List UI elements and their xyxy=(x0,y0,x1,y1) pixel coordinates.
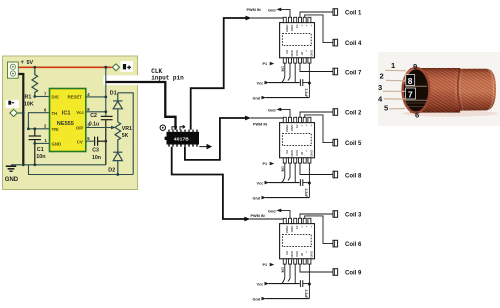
coil 4 terminal xyxy=(333,39,338,46)
svg-text:VR1: VR1 xyxy=(122,126,132,132)
svg-text:Gnd: Gnd xyxy=(253,197,261,201)
white box behind B+ icon xyxy=(121,61,134,72)
svg-text:8: 8 xyxy=(408,76,413,86)
wire: TH pin 6 xyxy=(28,113,49,129)
capacitor 2.2uF xyxy=(299,280,301,287)
node xyxy=(308,181,312,185)
wire: feed to IC2 xyxy=(191,18,246,130)
coil body right section xyxy=(455,69,496,111)
svg-text:9: 9 xyxy=(413,62,417,71)
wire: coil 2 output xyxy=(300,112,333,117)
wire: TRI pin 2 xyxy=(28,128,49,130)
terminal B+ diamond xyxy=(112,64,119,71)
winding texture xyxy=(410,68,455,113)
wire: DIS pin 7 xyxy=(35,96,50,98)
wire: +5V red rail xyxy=(19,66,112,68)
wire: Vcc pin 8 xyxy=(86,111,106,113)
potentiometer VR1 xyxy=(115,122,121,152)
pin number 8 box xyxy=(406,75,415,86)
svg-text:NE555: NE555 xyxy=(57,121,74,127)
wire: coil 6 output xyxy=(305,216,333,244)
oscillator driver U1 4017B xyxy=(165,130,199,147)
svg-text:Coil 5: Coil 5 xyxy=(345,141,362,147)
svg-text:Coil 1: Coil 1 xyxy=(345,11,362,17)
svg-text:IC1: IC1 xyxy=(62,111,71,117)
svg-text:Gnd: Gnd xyxy=(253,298,261,302)
svg-text:+: + xyxy=(21,60,25,66)
svg-text:2: 2 xyxy=(380,72,384,81)
svg-text:C1: C1 xyxy=(37,147,44,153)
wire: CLK from 555 output xyxy=(106,82,176,130)
diode D1 xyxy=(113,93,122,122)
svg-text:Gnd: Gnd xyxy=(268,108,276,112)
IC3 4017 decade counter xyxy=(280,117,315,163)
connector J1 (2-pin) xyxy=(8,62,19,78)
svg-text:10k: 10k xyxy=(280,267,284,273)
svg-text:RESET: RESET xyxy=(68,95,83,100)
timer IC1 NE555 xyxy=(50,89,86,152)
svg-text:D2: D2 xyxy=(108,168,115,174)
coil face xyxy=(403,68,430,113)
pin numbers xyxy=(44,92,90,144)
svg-text:D1: D1 xyxy=(110,90,117,96)
svg-text:10k: 10k xyxy=(280,66,284,72)
wire: pin2 stub xyxy=(288,163,290,180)
svg-text:Gnd: Gnd xyxy=(268,209,276,213)
wire: pin6 ground vertical xyxy=(308,264,310,299)
svg-text:Coil 6: Coil 6 xyxy=(345,242,362,248)
wire pin 3 xyxy=(383,90,405,92)
wire: coil 7 output xyxy=(300,63,333,71)
panel background xyxy=(3,56,138,190)
svg-text:PWM IN: PWM IN xyxy=(251,214,265,218)
svg-text:C3: C3 xyxy=(92,147,99,153)
svg-text:Coil 2: Coil 2 xyxy=(345,111,362,117)
ground xyxy=(6,166,16,171)
svg-text:5V: 5V xyxy=(27,60,34,66)
svg-text:5K: 5K xyxy=(122,133,129,139)
clock source symbol xyxy=(160,125,165,130)
svg-text:TRI: TRI xyxy=(52,127,59,132)
svg-text:DIS: DIS xyxy=(52,95,59,100)
svg-text:6: 6 xyxy=(415,110,419,119)
svg-text:Vcc: Vcc xyxy=(257,283,264,287)
B+ icon xyxy=(123,64,126,69)
wire: coil 4 output xyxy=(305,15,333,43)
wire: pin2 stub xyxy=(288,264,290,281)
capacitor C3 xyxy=(95,137,106,146)
capacitor C1 xyxy=(29,129,41,165)
node: +5V net junction xyxy=(104,66,107,69)
seam between windings xyxy=(458,69,461,111)
svg-text:P1: P1 xyxy=(263,62,268,66)
coil 2 terminal xyxy=(333,109,338,116)
svg-text:7: 7 xyxy=(408,89,413,99)
svg-text:R1: R1 xyxy=(25,95,32,101)
node xyxy=(308,81,312,85)
node xyxy=(33,163,36,166)
svg-text:C2: C2 xyxy=(90,113,97,119)
wire: bottom return xyxy=(29,165,134,175)
B- icon xyxy=(8,101,11,105)
coil 1 terminal xyxy=(333,9,338,16)
resistor R 10k xyxy=(282,63,285,83)
svg-text:Gnd: Gnd xyxy=(268,8,276,12)
svg-text:P1: P1 xyxy=(263,162,268,166)
coil 7 terminal xyxy=(333,68,338,75)
node xyxy=(104,140,107,143)
svg-text:GND: GND xyxy=(5,177,19,183)
svg-text:Vcc: Vcc xyxy=(76,110,84,115)
svg-text:Vcc: Vcc xyxy=(257,82,264,86)
wire pin 2 xyxy=(386,79,405,81)
wire: coil 9 output xyxy=(300,264,333,272)
coil shadow xyxy=(402,110,498,116)
wire: D1 top loop to panel right xyxy=(118,93,133,175)
photo background xyxy=(378,52,500,126)
resistor R1 xyxy=(32,67,38,96)
IC4 4017 decade counter xyxy=(280,218,315,264)
svg-text:O/P: O/P xyxy=(76,126,84,131)
wire: RESET pin 4 xyxy=(86,96,106,98)
pin number 7 box xyxy=(406,88,416,99)
wire: feed to IC3 xyxy=(185,118,245,160)
wire: Gnd to pin2 xyxy=(281,210,291,218)
node xyxy=(308,282,312,286)
wire: B- thick vertical xyxy=(19,74,24,165)
svg-text:TH: TH xyxy=(52,111,58,116)
right end cap edge xyxy=(488,70,494,110)
wire: coil 1 output xyxy=(300,12,333,17)
white box behind B- icon xyxy=(6,100,20,108)
svg-text:PWM IN: PWM IN xyxy=(253,122,267,126)
terminal B- diamond xyxy=(10,109,18,116)
svg-text:2.2uF: 2.2uF xyxy=(304,189,308,198)
node xyxy=(33,142,36,145)
resistor R 10k xyxy=(282,163,285,183)
wire pin 5 xyxy=(389,108,405,110)
wire: Gnd to pin2 xyxy=(281,109,291,117)
wire: pin6 ground vertical xyxy=(308,163,310,198)
svg-text:4017B: 4017B xyxy=(174,137,189,142)
IC2 4017 decade counter xyxy=(280,17,315,63)
svg-text:10n: 10n xyxy=(92,155,101,161)
VR1 wiper arrowhead xyxy=(111,126,116,130)
svg-text:0.1u: 0.1u xyxy=(89,121,99,127)
wire: coil 5 output xyxy=(305,115,333,143)
svg-text:Coil 3: Coil 3 xyxy=(345,213,362,219)
annotation arrows xyxy=(172,125,177,130)
svg-text:Coil 7: Coil 7 xyxy=(345,70,362,76)
capacitor 2.2uF xyxy=(299,79,301,86)
wire: pin2 stub xyxy=(288,63,290,80)
node xyxy=(22,112,25,115)
coil 3 terminal xyxy=(333,211,338,218)
wire: coil 8 output xyxy=(300,163,333,174)
wire: feed to IC4 xyxy=(172,147,245,219)
wire: pin3 VCC xyxy=(294,63,296,83)
coil 5 terminal xyxy=(333,139,338,146)
svg-text:10K: 10K xyxy=(24,102,34,108)
wire: O/P pin 3 xyxy=(86,127,112,129)
node: R1 bottom on DIS wire xyxy=(33,95,36,98)
wire pin 1 xyxy=(385,69,406,72)
svg-text:Coil 9: Coil 9 xyxy=(345,271,362,277)
svg-text:3: 3 xyxy=(378,83,382,92)
node: R1 top junction xyxy=(33,66,36,69)
wire xyxy=(18,112,24,114)
coil body left section xyxy=(410,68,460,113)
node xyxy=(22,163,25,166)
svg-text:10k: 10k xyxy=(280,166,284,172)
svg-text:PWM IN: PWM IN xyxy=(247,8,261,12)
wire pin 4 xyxy=(384,98,405,100)
coil 6 terminal xyxy=(333,240,338,247)
svg-text:Coil 4: Coil 4 xyxy=(345,41,362,47)
wire: pin3 VCC xyxy=(294,163,296,183)
node xyxy=(104,110,107,113)
wire: ground rail xyxy=(11,164,106,166)
svg-text:Gnd: Gnd xyxy=(253,97,261,101)
wire: GND pin 1 xyxy=(35,142,50,144)
svg-text:GND: GND xyxy=(52,141,62,146)
svg-text:P1: P1 xyxy=(263,263,268,267)
wire: Gnd to pin2 xyxy=(281,9,291,17)
node xyxy=(27,127,30,130)
svg-text:input pin: input pin xyxy=(151,74,184,81)
wires across face xyxy=(405,85,427,87)
capacitor C2 xyxy=(101,116,113,164)
svg-text:Vcc: Vcc xyxy=(257,182,264,186)
diode D2 xyxy=(113,152,122,174)
capacitor 2.2uF xyxy=(299,179,301,186)
output arrow xyxy=(199,145,211,149)
node xyxy=(116,173,119,176)
svg-text:10n: 10n xyxy=(36,154,45,160)
wire: pin6 ground vertical xyxy=(308,63,310,98)
wire: +5V vertical net xyxy=(105,67,107,116)
wire: pin3 VCC xyxy=(294,264,296,284)
coil 9 terminal xyxy=(333,269,338,276)
svg-text:CV: CV xyxy=(77,139,83,144)
white strip behind CLK wire xyxy=(104,75,145,85)
coil 8 terminal xyxy=(333,171,338,178)
wire: CV pin 5 xyxy=(86,140,94,142)
node xyxy=(33,127,36,130)
wire: coil 3 output xyxy=(300,214,333,218)
resistor R 10k xyxy=(282,264,285,284)
svg-text:2.2uF: 2.2uF xyxy=(304,290,308,299)
node xyxy=(104,96,107,99)
svg-text:2.2uF: 2.2uF xyxy=(304,89,308,98)
svg-text:Coil 8: Coil 8 xyxy=(345,173,362,179)
